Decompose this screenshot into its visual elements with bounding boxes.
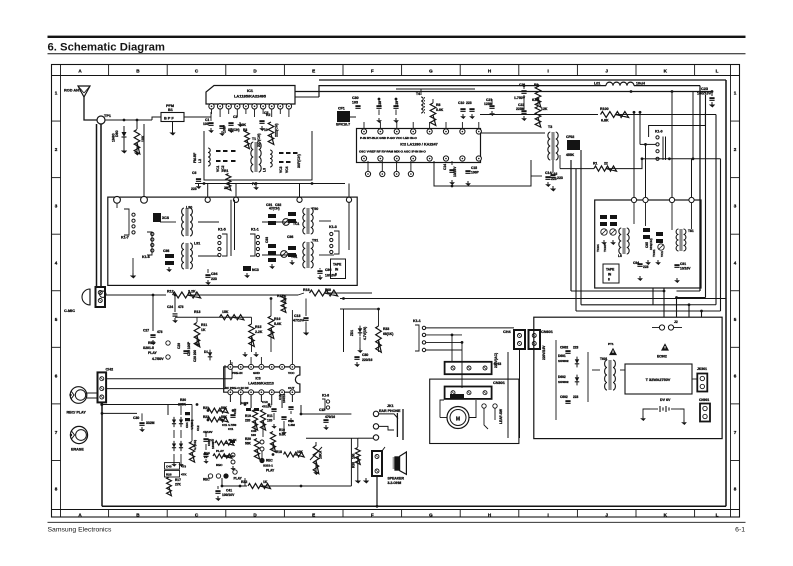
svg-text:ZD1: ZD1	[350, 330, 354, 336]
svg-text:PLAY: PLAY	[148, 351, 157, 355]
svg-text:EC902: EC902	[657, 355, 667, 359]
svg-text:CN901: CN901	[699, 398, 709, 402]
svg-text:6-1: 6-1	[735, 527, 745, 534]
svg-text:R28: R28	[166, 473, 172, 477]
svg-text:103: 103	[352, 101, 358, 105]
svg-text:L6: L6	[618, 254, 622, 258]
svg-text:C41: C41	[226, 489, 232, 493]
svg-text:100: 100	[352, 453, 356, 459]
svg-text:47/10V: 47/10V	[203, 430, 213, 434]
svg-text:B P F: B P F	[164, 117, 174, 121]
svg-text:227(CH): 227(CH)	[257, 133, 261, 147]
svg-text:PRE-IN: PRE-IN	[232, 371, 243, 375]
svg-text:220V/16V: 220V/16V	[542, 345, 546, 360]
svg-text:R12: R12	[167, 290, 174, 294]
svg-text:C40: C40	[166, 465, 172, 469]
svg-text:1N60: 1N60	[112, 133, 116, 142]
svg-text:R1: R1	[593, 162, 597, 166]
svg-text:CN02: CN02	[560, 346, 568, 350]
svg-text:C19: C19	[395, 101, 399, 107]
svg-text:C94: C94	[211, 272, 217, 276]
svg-text:4.7V(1N): 4.7V(1N)	[363, 327, 367, 340]
svg-text:ERASE: ERASE	[71, 448, 84, 452]
svg-text:L2: L2	[198, 159, 202, 163]
svg-text:C10: C10	[458, 101, 464, 105]
svg-text:C29 100P: C29 100P	[187, 341, 191, 356]
svg-text:R33: R33	[383, 327, 389, 331]
svg-text:1N4002: 1N4002	[558, 359, 569, 363]
svg-text:CF02: CF02	[566, 135, 574, 139]
svg-text:R17: R17	[175, 478, 181, 482]
svg-text:D1: D1	[204, 350, 208, 354]
svg-text:2.2K: 2.2K	[188, 290, 196, 294]
svg-text:NC3: NC3	[252, 268, 259, 272]
svg-text:7: 7	[55, 430, 58, 435]
svg-text:L: L	[716, 69, 719, 74]
svg-text:473: 473	[157, 330, 163, 334]
svg-text:C23: C23	[701, 87, 708, 91]
svg-text:100/10V: 100/10V	[697, 92, 712, 96]
svg-text:C94: C94	[633, 261, 639, 265]
svg-text:K1-7: K1-7	[121, 236, 129, 240]
svg-text:C91: C91	[680, 262, 686, 266]
svg-text:331(CH): 331(CH)	[649, 238, 653, 250]
svg-text:R18: R18	[303, 288, 310, 292]
svg-text:C29: C29	[177, 343, 181, 349]
svg-text:R16: R16	[274, 317, 280, 321]
svg-text:2: 2	[55, 147, 58, 152]
svg-text:C602: C602	[560, 395, 568, 399]
svg-text:VCC: VCC	[288, 371, 295, 375]
svg-text:T81: T81	[688, 229, 694, 233]
svg-text:6.8K: 6.8K	[601, 119, 609, 123]
svg-text:8: 8	[55, 487, 58, 492]
svg-text:2: 2	[734, 147, 737, 152]
svg-text:C20 200: C20 200	[193, 350, 197, 362]
svg-text:3: 3	[734, 204, 737, 209]
svg-text:IC2 LA1260 / KA2247: IC2 LA1260 / KA2247	[400, 143, 438, 147]
svg-text:R2: R2	[266, 113, 270, 117]
svg-text:1: 1	[734, 91, 737, 96]
svg-text:T4: T4	[416, 92, 420, 96]
svg-text:TP1: TP1	[104, 114, 111, 118]
svg-text:L: L	[716, 513, 719, 518]
svg-text:10KA: 10KA	[319, 450, 323, 459]
svg-text:E: E	[312, 69, 315, 74]
svg-text:223: 223	[191, 187, 197, 191]
svg-text:C-MIC: C-MIC	[64, 309, 75, 313]
svg-text:XCS: XCS	[162, 216, 170, 220]
svg-text:220/16: 220/16	[362, 358, 372, 362]
svg-text:T601: T601	[600, 357, 608, 361]
svg-text:TC1: TC1	[291, 255, 298, 259]
svg-text:D80: D80	[115, 130, 119, 137]
svg-text:P-IN RY-BLK GND P-GO VCC: P-IN RY-BLK GND P-GO VCC LED IN-O	[360, 136, 417, 140]
svg-text:C11: C11	[228, 427, 234, 431]
svg-text:1K: 1K	[263, 480, 268, 484]
svg-text:5.6K: 5.6K	[274, 322, 282, 326]
svg-text:5: 5	[734, 317, 737, 322]
svg-text:LEAF-SW: LEAF-SW	[499, 408, 503, 424]
svg-text:L01: L01	[594, 82, 600, 86]
svg-text:VC4: VC4	[285, 166, 289, 173]
svg-text:4.7(CH): 4.7(CH)	[193, 440, 197, 450]
svg-text:JK1: JK1	[387, 404, 394, 408]
svg-text:4: 4	[734, 260, 737, 265]
svg-text:5.6K: 5.6K	[436, 108, 444, 112]
svg-text:CH3: CH3	[494, 362, 502, 366]
svg-text:10/16V: 10/16V	[680, 267, 691, 271]
svg-text:D602: D602	[558, 375, 566, 379]
svg-text:EAR PHONE: EAR PHONE	[379, 409, 401, 413]
svg-text:47K: 47K	[181, 473, 187, 477]
svg-text:J: J	[605, 513, 608, 518]
svg-text:F: F	[371, 69, 374, 74]
svg-text:CH4: CH4	[503, 330, 511, 334]
svg-text:C14: C14	[443, 164, 447, 170]
svg-text:TAPE: TAPE	[333, 263, 341, 267]
svg-text:F: F	[371, 513, 374, 518]
svg-text:K1-8: K1-8	[322, 394, 329, 398]
svg-text:8: 8	[335, 273, 337, 277]
svg-text:1N4002: 1N4002	[558, 380, 569, 384]
svg-text:56K: 56K	[245, 442, 252, 446]
svg-text:R1: R1	[224, 169, 228, 173]
svg-text:4.7/50V: 4.7/50V	[152, 357, 164, 361]
svg-text:100/10V: 100/10V	[222, 493, 235, 497]
svg-text:CF1: CF1	[338, 107, 345, 111]
svg-text:123M: 123M	[484, 102, 493, 106]
svg-text:47(CH): 47(CH)	[269, 207, 280, 211]
svg-text:10/16V: 10/16V	[453, 166, 457, 177]
svg-text:VC1: VC1	[660, 251, 664, 257]
svg-text:220: 220	[245, 419, 251, 423]
svg-text:C98: C98	[287, 235, 293, 239]
svg-text:R19: R19	[245, 414, 251, 418]
svg-text:REC: REC	[266, 459, 273, 463]
svg-text:R100: R100	[600, 107, 609, 111]
svg-text:REC: REC	[148, 341, 156, 345]
svg-text:JK901: JK901	[697, 367, 707, 371]
svg-text:VC3: VC3	[279, 166, 283, 173]
svg-text:C6: C6	[192, 171, 196, 175]
svg-text:1K: 1K	[201, 328, 206, 332]
svg-text:560: 560	[325, 288, 331, 292]
svg-text:PLAY: PLAY	[266, 469, 275, 473]
svg-text:IC3: IC3	[255, 377, 260, 381]
svg-text:100/16: 100/16	[282, 393, 286, 403]
svg-text:470/16: 470/16	[325, 415, 335, 419]
svg-text:6.8K: 6.8K	[532, 98, 540, 102]
svg-text:T1: T1	[252, 137, 256, 141]
svg-text:10K: 10K	[240, 123, 247, 127]
svg-text:10: 10	[264, 128, 268, 132]
svg-text:S201-1: S201-1	[263, 464, 273, 468]
svg-text:C14: C14	[545, 171, 551, 175]
svg-text:SFK10.7: SFK10.7	[336, 123, 350, 127]
svg-text:TC93: TC93	[603, 244, 607, 252]
svg-text:47/10V: 47/10V	[293, 319, 305, 323]
svg-text:1: 1	[55, 91, 58, 96]
svg-text:1.5M: 1.5M	[288, 423, 295, 427]
svg-text:4: 4	[55, 260, 58, 265]
svg-text:T 32WA2750V: T 32WA2750V	[646, 378, 671, 382]
svg-text:R18: R18	[276, 450, 282, 454]
svg-text:332M: 332M	[146, 421, 155, 425]
svg-text:473: 473	[178, 305, 184, 309]
svg-text:103: 103	[251, 433, 256, 437]
svg-text:K1-6: K1-6	[142, 255, 150, 259]
svg-text:T91: T91	[312, 239, 318, 243]
svg-text:8: 8	[734, 487, 737, 492]
svg-text:C11: C11	[222, 423, 228, 427]
svg-text:56K: 56K	[221, 406, 228, 410]
svg-text:12K: 12K	[541, 107, 548, 111]
svg-text:VC1: VC1	[216, 165, 220, 172]
svg-text:6: 6	[734, 373, 737, 378]
svg-text:5: 5	[55, 317, 58, 322]
svg-text:C34: C34	[185, 422, 189, 428]
svg-text:R13: R13	[208, 438, 214, 442]
svg-text:223: 223	[643, 265, 649, 269]
svg-text:IC1: IC1	[247, 88, 254, 93]
svg-text:223: 223	[557, 176, 563, 180]
svg-text:K1-5: K1-5	[218, 228, 226, 232]
svg-text:R15: R15	[255, 325, 261, 329]
svg-text:120: 120	[267, 419, 273, 423]
svg-text:PLAY: PLAY	[216, 449, 225, 453]
svg-text:223: 223	[573, 346, 579, 350]
svg-text:C27: C27	[143, 329, 149, 333]
svg-text:I: I	[547, 69, 548, 74]
svg-text:C13: C13	[262, 400, 268, 404]
svg-text:R13: R13	[194, 310, 200, 314]
svg-text:REC: REC	[216, 463, 223, 467]
svg-text:10uH: 10uH	[636, 82, 645, 86]
svg-text:GND: GND	[253, 371, 261, 375]
svg-text:OSC V-REF RF RY-PAM MIX-O AGC: OSC V-REF RF RY-PAM MIX-O AGC IF-IN IN-O	[359, 150, 426, 154]
svg-text:455K: 455K	[566, 153, 575, 157]
svg-text:J2: J2	[674, 320, 678, 324]
svg-text:3.2-OHM: 3.2-OHM	[388, 481, 402, 485]
svg-text:R36: R36	[352, 462, 356, 468]
svg-text:TC94: TC94	[596, 244, 600, 252]
svg-text:100P: 100P	[223, 124, 227, 133]
svg-text:C18: C18	[378, 101, 382, 107]
svg-text:10K: 10K	[297, 450, 304, 454]
svg-text:103: 103	[203, 122, 209, 126]
svg-text:R30: R30	[180, 398, 186, 402]
svg-text:C18: C18	[294, 314, 300, 318]
svg-text:K1-0: K1-0	[655, 130, 663, 134]
svg-text:T3: T3	[548, 125, 552, 129]
svg-text:R11: R11	[267, 414, 273, 418]
svg-text:30F(CH): 30F(CH)	[297, 153, 301, 168]
svg-text:CH2: CH2	[106, 368, 114, 372]
svg-text:K1-1: K1-1	[413, 319, 421, 323]
svg-text:LA1185/KA22495: LA1185/KA22495	[234, 94, 267, 99]
svg-text:7: 7	[734, 430, 737, 435]
svg-text:22: 22	[204, 455, 208, 459]
svg-text:15K: 15K	[222, 310, 229, 314]
svg-text:B1: B1	[168, 108, 173, 112]
svg-text:C80: C80	[362, 353, 368, 357]
svg-text:M: M	[456, 417, 460, 423]
svg-text:3: 3	[55, 204, 58, 209]
svg-text:G: G	[429, 69, 433, 74]
svg-text:223M: 223M	[516, 107, 525, 111]
svg-text:C93: C93	[265, 237, 269, 243]
svg-text:C3: C3	[233, 115, 237, 119]
svg-text:FM-RF: FM-RF	[193, 153, 197, 163]
svg-text:REC/ PLAY: REC/ PLAY	[67, 411, 87, 415]
svg-text:R20: R20	[245, 437, 251, 441]
svg-text:C15: C15	[471, 166, 477, 170]
svg-text:ROD ANT: ROD ANT	[64, 89, 82, 93]
svg-text:CN601: CN601	[541, 330, 553, 334]
svg-text:LA4160/KA2213: LA4160/KA2213	[248, 382, 274, 386]
svg-text:100P: 100P	[471, 171, 480, 175]
svg-text:6. Schematic Diagram: 6. Schematic Diagram	[48, 42, 165, 54]
svg-text:22: 22	[604, 162, 608, 166]
svg-text:E: E	[312, 513, 315, 518]
svg-text:CN301: CN301	[493, 381, 505, 385]
svg-text:J: J	[605, 69, 608, 74]
svg-text:C12: C12	[196, 425, 200, 431]
svg-text:RF PRE-O IN RF: RF PRE-O IN RF	[225, 386, 249, 390]
svg-text:I: I	[547, 513, 548, 518]
svg-text:C98: C98	[163, 249, 169, 253]
svg-text:G: G	[429, 513, 433, 518]
svg-text:27K: 27K	[175, 483, 182, 487]
svg-text:PT1: PT1	[608, 342, 614, 346]
svg-text:SF(CH): SF(CH)	[228, 128, 240, 132]
svg-text:K1-1: K1-1	[251, 228, 259, 232]
svg-text:C30: C30	[133, 416, 139, 420]
svg-text:R32: R32	[241, 480, 247, 484]
svg-text:C24: C24	[167, 305, 173, 309]
svg-text:Samsung Electronics: Samsung Electronics	[48, 527, 112, 534]
svg-text:R11: R11	[201, 323, 207, 327]
svg-text:D601: D601	[558, 354, 566, 358]
svg-text:TAPE: TAPE	[606, 268, 614, 272]
svg-text:K1-3: K1-3	[329, 225, 337, 229]
svg-text:223: 223	[466, 101, 472, 105]
svg-text:REC: REC	[203, 478, 210, 482]
svg-text:SPEAKER: SPEAKER	[388, 477, 405, 481]
svg-text:OUT: OUT	[288, 386, 295, 390]
svg-text:2.2K: 2.2K	[255, 330, 263, 334]
svg-text:8: 8	[608, 278, 610, 282]
svg-text:TC91: TC91	[652, 249, 656, 257]
svg-text:223: 223	[573, 395, 579, 399]
svg-text:L3: L3	[263, 168, 267, 172]
svg-text:L91: L91	[194, 242, 200, 246]
svg-text:DV 6V: DV 6V	[660, 398, 671, 402]
svg-text:56K: 56K	[221, 415, 228, 419]
svg-text:223: 223	[211, 277, 217, 281]
svg-text:R8: R8	[436, 103, 440, 107]
svg-text:TC1: TC1	[293, 222, 300, 226]
svg-text:6: 6	[55, 373, 58, 378]
svg-text:S201-5: S201-5	[143, 346, 154, 350]
svg-text:222(CH): 222(CH)	[275, 123, 279, 137]
svg-text:68(1K): 68(1K)	[383, 332, 393, 336]
svg-text:22: 22	[224, 186, 228, 190]
svg-text:C30: C30	[352, 96, 359, 100]
